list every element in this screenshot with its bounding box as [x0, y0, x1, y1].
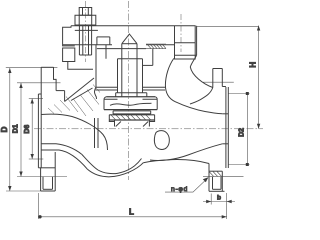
- svg-text:D: D: [0, 126, 9, 132]
- svg-text:b: b: [217, 195, 221, 202]
- svg-text:D1: D1: [12, 124, 19, 133]
- svg-text:L: L: [129, 208, 134, 217]
- svg-text:D2: D2: [239, 128, 246, 137]
- svg-text:n-φd: n-φd: [171, 186, 188, 193]
- svg-text:D6: D6: [24, 125, 31, 134]
- svg-text:H: H: [248, 62, 257, 68]
